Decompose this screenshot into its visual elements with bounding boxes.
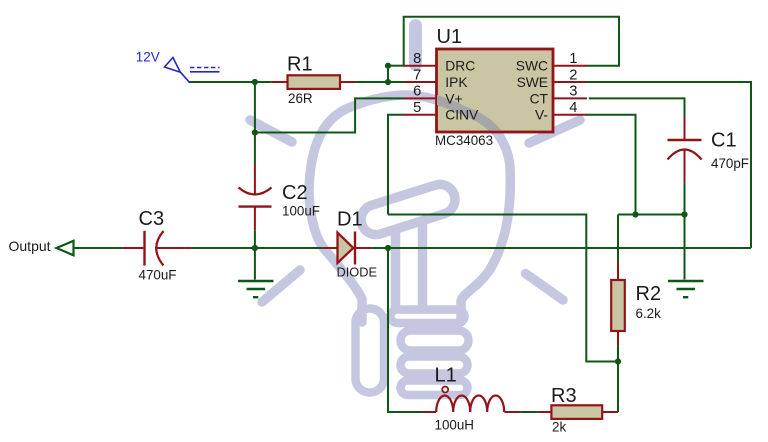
svg-text:1: 1 (569, 51, 577, 67)
svg-text:SWC: SWC (516, 59, 548, 74)
wire D1 right to right rail (372, 247, 751, 249)
wire C1 bottom to gnd rail (684, 182, 686, 214)
IC U1 MC34063 (309, 26, 587, 195)
wire gnd rail (618, 214, 685, 216)
wire node B up to node C (pin8 row) (387, 66, 389, 82)
svg-text:470pF: 470pF (711, 156, 749, 171)
svg-text:U1: U1 (437, 26, 463, 48)
fist thumb (356, 309, 385, 393)
svg-text:L1: L1 (435, 365, 457, 387)
svg-text:MC34063: MC34063 (435, 133, 493, 148)
node V- rail junction (632, 211, 638, 217)
capacitor C1 (668, 116, 749, 182)
wire node A down to node D (254, 82, 256, 133)
wire node A to R1 left (255, 81, 272, 83)
finger 3 (401, 357, 468, 374)
finger 4 (401, 381, 468, 396)
wire 12V to node A (189, 81, 255, 83)
node F feedback junction (615, 358, 621, 364)
node B junction (385, 79, 391, 85)
pin 6 stub (404, 97, 436, 99)
ray top (409, 26, 422, 65)
pin 4 stub (553, 114, 588, 116)
wire C2 bottom to node E (output junction) (254, 230, 256, 248)
pin 2 stub (553, 81, 588, 83)
wire gnd rail down to R2 top (617, 215, 619, 263)
ray lower-right (526, 274, 564, 301)
svg-text:4: 4 (569, 100, 577, 116)
wire node C to pin8 (388, 65, 404, 67)
bulb glass (309, 95, 510, 322)
pin 7 stub (404, 81, 436, 83)
svg-text:IPK: IPK (445, 75, 468, 90)
ray upper-right (529, 120, 580, 143)
svg-text:C3: C3 (139, 208, 165, 230)
wire right rail up to pin2 SWE (587, 82, 752, 248)
svg-text:100uF: 100uF (282, 204, 320, 219)
resistor R3 (538, 385, 618, 435)
ground GND2 (668, 281, 704, 297)
svg-text:3: 3 (569, 84, 577, 100)
node C junction (385, 63, 391, 69)
pin 1 stub (553, 65, 588, 67)
svg-text:C1: C1 (711, 130, 737, 152)
svg-text:100uH: 100uH (435, 418, 474, 433)
svg-text:26R: 26R (288, 91, 313, 106)
resistor R2 (611, 262, 661, 345)
svg-text:DRC: DRC (445, 59, 475, 74)
wire output arrow to C3 (74, 247, 122, 249)
wire pin3 CT to C1 top (589, 98, 685, 116)
pin 5 stub (404, 114, 436, 116)
wire CINV rail to feedback node (388, 215, 618, 362)
svg-text:C2: C2 (282, 182, 308, 204)
wire node B to pin7 (388, 81, 404, 83)
svg-text:2: 2 (569, 67, 577, 83)
hammer handle (396, 219, 423, 308)
svg-text:V+: V+ (445, 91, 462, 106)
watermark lightbulb logo (250, 26, 580, 396)
DC symbol dashes (190, 67, 220, 69)
node D1-L1 junction (385, 245, 391, 251)
svg-text:R3: R3 (551, 385, 577, 407)
wire C3 right to D1 left (through node E) (191, 247, 323, 249)
svg-text:8: 8 (413, 51, 421, 67)
svg-text:D1: D1 (337, 209, 363, 231)
diode D1 (323, 209, 377, 280)
svg-text:5: 5 (413, 100, 421, 116)
wire pin5 CINV down and across (388, 115, 404, 215)
svg-text:6.2k: 6.2k (636, 306, 662, 321)
ray lower-left (262, 270, 300, 302)
svg-text:2k: 2k (552, 420, 566, 435)
svg-text:Output: Output (9, 238, 51, 254)
wire gnd rail to ground 2 (684, 215, 686, 280)
finger 1 (391, 310, 465, 324)
pin 3 stub (553, 97, 588, 99)
wire R3 right lead to column (602, 411, 618, 413)
wire node D down to C2 top (254, 133, 256, 165)
svg-text:SWE: SWE (517, 75, 548, 90)
svg-text:CINV: CINV (445, 108, 479, 123)
svg-text:R1: R1 (287, 54, 313, 76)
wire L1 right to R3 left (520, 411, 538, 413)
capacitor C3 (122, 208, 191, 283)
node C1-gnd junction (681, 211, 687, 217)
node A junction (252, 79, 258, 85)
svg-text:6: 6 (413, 84, 421, 100)
pin 8 stub (404, 65, 436, 67)
ray upper-left (250, 120, 292, 142)
svg-text:7: 7 (413, 67, 421, 83)
capacitor C2 (239, 164, 320, 230)
wire top loop pin8 to pin1 (404, 17, 619, 66)
L1 polarity marker circle (442, 387, 448, 393)
output terminal (9, 238, 74, 255)
svg-text:12V: 12V (136, 49, 160, 64)
wire node E down to ground (254, 248, 256, 280)
svg-text:R2: R2 (636, 283, 662, 305)
svg-text:V-: V- (535, 108, 548, 123)
node D junction (252, 129, 258, 135)
svg-text:DIODE: DIODE (337, 265, 378, 280)
wire R1 right to node B (356, 81, 388, 83)
wire node D to pin6 V+ (255, 98, 404, 132)
wire pin4 V- to gnd rail (587, 115, 636, 215)
svg-text:CT: CT (530, 91, 549, 106)
IC body (437, 49, 554, 132)
supply 12V (165, 58, 220, 83)
supply arrow (165, 58, 181, 73)
ground GND1 (238, 281, 274, 297)
wire node F down to R3 right (617, 362, 619, 413)
node E junction (252, 245, 258, 251)
resistor R1 (272, 54, 356, 107)
finger 2 (401, 331, 469, 351)
hammer head (357, 181, 459, 239)
wire R2 bottom to node F (617, 345, 619, 362)
inductor L1 (423, 365, 521, 433)
svg-text:470uF: 470uF (139, 268, 177, 283)
wire D1 node down to L1 (388, 248, 423, 412)
